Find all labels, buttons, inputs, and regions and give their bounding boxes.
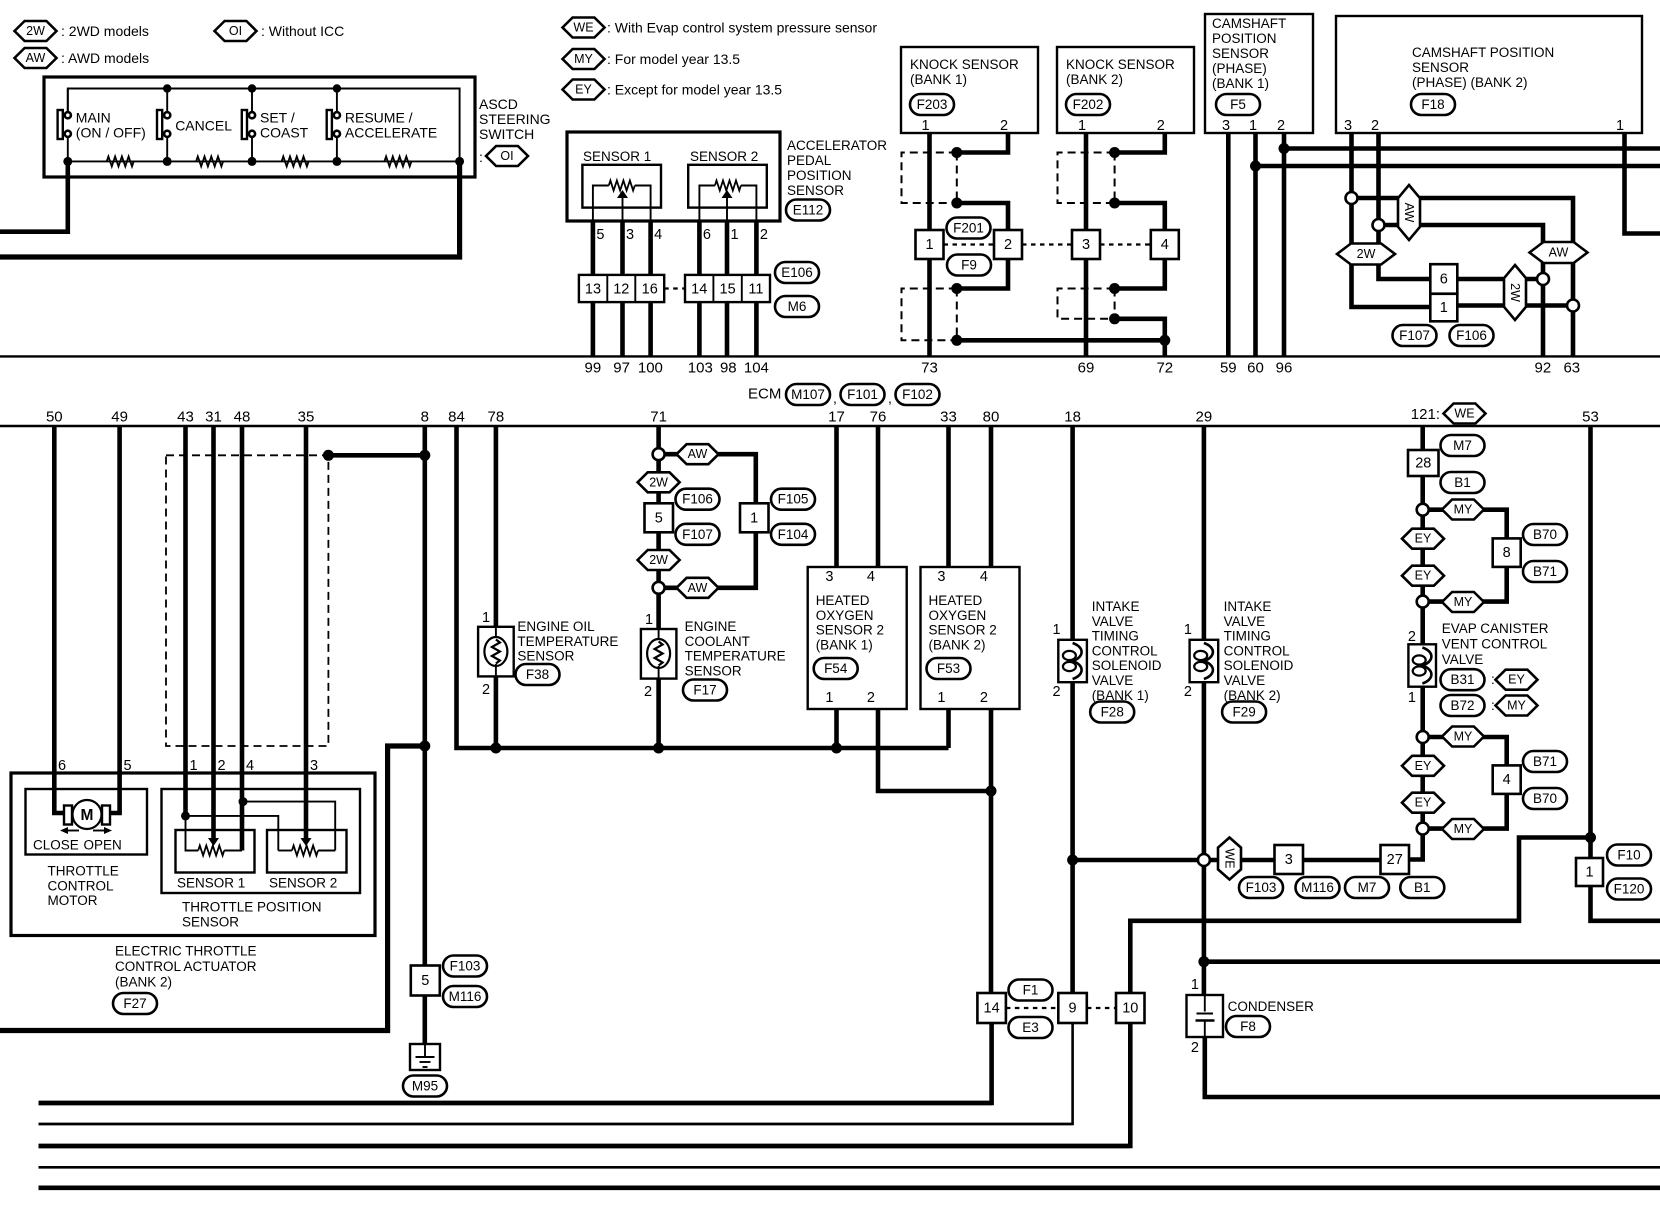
svg-text:17: 17 bbox=[828, 409, 845, 426]
wire to engine coolant temperature sensor bbox=[656, 588, 661, 629]
APP sensor pin 5 wire to connector bbox=[591, 221, 596, 275]
svg-text:3: 3 bbox=[310, 758, 318, 774]
connector label M7 (WE bus) bbox=[1345, 877, 1389, 898]
bottom bus line 1 bbox=[39, 1101, 992, 1106]
ASCD internal bottom bus wire bbox=[68, 160, 460, 162]
wire ECM pin 84 to sensor ground bus bbox=[457, 426, 949, 748]
condition hexagon MY (upper branch start) bbox=[1442, 500, 1484, 520]
condition hexagon AW tall on branch wires bbox=[1398, 185, 1420, 240]
APP sensor pin 2 wire to connector bbox=[754, 221, 759, 275]
dashed link between connectors bbox=[664, 287, 685, 289]
joint circle lower MY branch bbox=[1417, 731, 1429, 743]
svg-text:TIMING: TIMING bbox=[1224, 629, 1271, 644]
junction on bottom bus #3 bbox=[248, 157, 257, 166]
junction oil temp sensor on ground bus bbox=[490, 743, 501, 754]
svg-text:99: 99 bbox=[585, 360, 602, 377]
svg-text:M116: M116 bbox=[449, 989, 482, 1004]
shield junction 2 bbox=[951, 198, 962, 209]
wire HO2S bank1 pin1 to ground bus bbox=[834, 709, 839, 748]
junction pin 8 column at shield wire bbox=[419, 450, 430, 461]
svg-text:1: 1 bbox=[922, 118, 930, 134]
throttle control motor box bbox=[26, 789, 148, 855]
wire connector to ECM below pin 2 bbox=[754, 302, 759, 356]
TPS sensor 1 inner box bbox=[176, 830, 255, 873]
svg-text:53: 53 bbox=[1582, 409, 1599, 426]
camshaft position sensor (phase)(bank1) box F5 bbox=[1205, 14, 1313, 133]
wire connector 10 to bottom bus 3 bbox=[39, 1023, 1131, 1146]
svg-text:1: 1 bbox=[1249, 118, 1257, 134]
svg-text:6: 6 bbox=[703, 227, 711, 243]
condition hexagon 2W tall on connector wires bbox=[1504, 265, 1526, 320]
F18 pin 3 wire upper segment bbox=[1349, 133, 1354, 198]
svg-text:B31: B31 bbox=[1450, 672, 1474, 687]
svg-text:CONTROL: CONTROL bbox=[1092, 643, 1158, 658]
knock sensor (BANK 1) box F203 bbox=[901, 47, 1038, 133]
resistor R2 in ASCD switch bbox=[196, 156, 223, 166]
knock sensor (BANK 2) box F202 bbox=[1057, 47, 1194, 133]
svg-text:B70: B70 bbox=[1533, 791, 1557, 806]
svg-text:3: 3 bbox=[1344, 118, 1352, 134]
wire TPS shield to pin 8 column bbox=[328, 453, 424, 458]
svg-text:28: 28 bbox=[1415, 456, 1431, 472]
svg-text:WE: WE bbox=[1223, 848, 1237, 868]
svg-text:B1: B1 bbox=[1454, 475, 1471, 490]
svg-text:HEATED: HEATED bbox=[816, 593, 870, 608]
wire below connector bbox=[957, 259, 1008, 289]
heated oxygen sensor 2 (BANK 2) box F53 bbox=[921, 567, 1020, 709]
motor close arrow bbox=[60, 827, 68, 834]
svg-text:10: 10 bbox=[1122, 1001, 1138, 1017]
svg-text:73: 73 bbox=[921, 360, 938, 377]
shield dashed drain upper bbox=[956, 153, 958, 204]
junction HO2S pin2 wires bbox=[986, 786, 997, 797]
svg-text:59: 59 bbox=[1220, 360, 1237, 377]
svg-text:F17: F17 bbox=[693, 683, 716, 698]
svg-text:F106: F106 bbox=[682, 492, 713, 507]
condition hexagon AW upper (pin71) bbox=[677, 444, 719, 464]
svg-text:ENGINE: ENGINE bbox=[685, 619, 737, 634]
engine oil temperature sensor F38 bbox=[478, 627, 514, 677]
MY branch wire lower through connector 4 bbox=[1423, 737, 1507, 765]
svg-text:2: 2 bbox=[644, 684, 652, 700]
connector label F38 bbox=[516, 664, 560, 685]
connector label F53 bbox=[927, 658, 971, 679]
wire connector to ECM below pin 3 bbox=[620, 302, 625, 356]
svg-text:2: 2 bbox=[760, 227, 768, 243]
wire knock bank2 shield to pin 72 column bbox=[1115, 319, 1165, 341]
svg-text:MY: MY bbox=[1454, 503, 1473, 517]
shield dashed drain upper bbox=[1114, 153, 1116, 204]
joint connector circles overlay bbox=[65, 112, 1579, 866]
wire ECM to HO2S (BANK 1) pin 3 bbox=[834, 426, 839, 567]
svg-text:9: 9 bbox=[1069, 1001, 1077, 1017]
ground branch wire of throttle actuator bbox=[0, 746, 425, 1031]
svg-text:8: 8 bbox=[1503, 545, 1511, 561]
svg-text:WE: WE bbox=[573, 21, 593, 35]
svg-text:OI: OI bbox=[500, 149, 513, 163]
wire ECM to HO2S (BANK 2) pin 3 bbox=[946, 426, 951, 567]
svg-text:B71: B71 bbox=[1533, 564, 1557, 579]
junction pin 8 column to actuator ground branch bbox=[419, 741, 430, 752]
svg-text:SENSOR 2: SENSOR 2 bbox=[929, 623, 997, 638]
svg-text:AW: AW bbox=[1549, 246, 1569, 260]
svg-text:1: 1 bbox=[1616, 118, 1624, 134]
wire connector 27 to EVAP chain bbox=[1409, 829, 1423, 860]
condition hexagon 2W upper (pin71) bbox=[638, 472, 680, 492]
joint circle upper MY branch bbox=[1417, 504, 1429, 516]
wire ECM to HO2S (BANK 1) pin 4 bbox=[876, 426, 881, 567]
joint connector circle on pin3 bbox=[1346, 192, 1358, 204]
connector box 3 on WE bus bbox=[1275, 845, 1304, 874]
junction on top bus above CANCEL bbox=[163, 84, 171, 92]
junction TPS pin1 branch bbox=[181, 811, 190, 820]
wire connector to ECM below pin 5 bbox=[591, 302, 596, 356]
svg-text:SENSOR 1: SENSOR 1 bbox=[177, 876, 245, 891]
interconnect box 1 (pin71 AW branch) bbox=[740, 503, 769, 532]
svg-text:: For model year 13.5: : For model year 13.5 bbox=[607, 51, 740, 67]
svg-text:: Without ICC: : Without ICC bbox=[261, 23, 344, 39]
svg-text:5: 5 bbox=[421, 973, 429, 989]
svg-text:12: 12 bbox=[613, 282, 629, 298]
svg-text:VENT CONTROL: VENT CONTROL bbox=[1442, 637, 1548, 652]
dotted link 2-3 bbox=[1022, 243, 1072, 245]
svg-text:HEATED: HEATED bbox=[929, 593, 983, 608]
dotted link 3-4 bbox=[1100, 243, 1151, 245]
svg-text:F105: F105 bbox=[778, 492, 809, 507]
svg-text:CAMSHAFT POSITION: CAMSHAFT POSITION bbox=[1412, 45, 1554, 60]
svg-text:1: 1 bbox=[482, 610, 490, 626]
TPS shield dashed box bbox=[166, 455, 328, 746]
svg-text:F107: F107 bbox=[1399, 328, 1430, 343]
svg-text:(BANK 1): (BANK 1) bbox=[816, 637, 873, 652]
knock bank2 shield junction 4 bbox=[1109, 313, 1120, 324]
switch RESUME / ACCELERATE actuator bar bbox=[327, 110, 332, 139]
legend symbol 2W = 2WD models bbox=[15, 21, 57, 41]
svg-text:SOLENOID: SOLENOID bbox=[1092, 658, 1162, 673]
junction pin72 column bbox=[1159, 335, 1170, 346]
svg-text:2: 2 bbox=[482, 682, 490, 698]
svg-text:31: 31 bbox=[205, 409, 222, 426]
wire to ECM pin 63 bbox=[1571, 306, 1576, 357]
ASCD steering switch enclosure box bbox=[44, 77, 475, 177]
connector label E106 bbox=[775, 262, 819, 283]
knock bank1 shield junction 4 bbox=[951, 335, 962, 346]
svg-text:CANCEL: CANCEL bbox=[175, 118, 232, 134]
svg-text:121:: 121: bbox=[1411, 406, 1440, 423]
svg-text:1: 1 bbox=[1078, 118, 1086, 134]
connector label F201 bbox=[947, 218, 991, 239]
svg-text:EY: EY bbox=[1415, 796, 1432, 810]
connector label F29 bbox=[1222, 702, 1266, 723]
wire ECM pin 50 to throttle motor pin 6 bbox=[54, 426, 64, 813]
connector label F9 bbox=[947, 255, 991, 276]
condition hexagon EY lower1 bbox=[1402, 756, 1444, 776]
svg-text:1: 1 bbox=[825, 690, 833, 706]
wire ECM to intake valve solenoid BANK 2 bbox=[1202, 426, 1207, 640]
switch SET / COAST contacts bbox=[249, 112, 255, 118]
wire to EVAP valve coil bbox=[1420, 602, 1425, 645]
shield junction top bbox=[951, 147, 962, 158]
svg-text:MOTOR: MOTOR bbox=[48, 893, 98, 908]
motor terminal left bbox=[64, 806, 72, 825]
svg-text:2: 2 bbox=[1157, 118, 1165, 134]
svg-text:VALVE: VALVE bbox=[1092, 614, 1134, 629]
knock sensor F203 pin 2 wire bbox=[957, 133, 1008, 153]
junction HO2S bank1 on ground bus bbox=[831, 743, 842, 754]
wire ECM pin 121 to connector 28 bbox=[1420, 426, 1425, 450]
svg-text:: 2WD models: : 2WD models bbox=[61, 23, 149, 39]
connector box 5 on ground column bbox=[411, 966, 440, 996]
svg-text:F103: F103 bbox=[450, 959, 481, 974]
switch MAIN (ON / OFF) contacts bbox=[65, 112, 71, 118]
connector E106/M6 row cells 13 12 16 bbox=[579, 275, 664, 302]
APP sensor pin 3 wire to connector bbox=[620, 221, 625, 275]
wire ECM pin 49 to throttle motor pin 5 bbox=[110, 426, 120, 813]
svg-text:F201: F201 bbox=[953, 221, 984, 236]
svg-text:THROTTLE: THROTTLE bbox=[48, 864, 119, 879]
wire ASCD right end to left edge bbox=[0, 161, 460, 257]
shield junction top bbox=[1109, 147, 1120, 158]
wire EVAP valve to joint circle bbox=[1420, 687, 1425, 737]
connector label B70 (upper) bbox=[1523, 524, 1567, 545]
svg-text:48: 48 bbox=[234, 409, 251, 426]
wire intake solenoid bank2 pin2 down to condenser bbox=[1202, 682, 1207, 995]
wire ECM pin 35 to TPS pin 3 bbox=[304, 426, 309, 838]
svg-text:3: 3 bbox=[626, 227, 634, 243]
APP sensor pin 6 wire to connector bbox=[697, 221, 702, 275]
wire ECM pin 78 to engine oil temperature sensor bbox=[494, 426, 499, 627]
condition hexagon MY (lower branch start) bbox=[1442, 727, 1484, 747]
legend symbol OI = Without ICC bbox=[215, 21, 257, 41]
F18 pin 2 wire lower segment to connector 6 bbox=[1379, 225, 1431, 279]
MY branch wire upper through connector 8 bbox=[1423, 510, 1507, 539]
AW branch wire lower bbox=[659, 532, 756, 588]
svg-text:2: 2 bbox=[1408, 629, 1416, 645]
svg-text:STEERING: STEERING bbox=[479, 111, 551, 127]
svg-text:F107: F107 bbox=[682, 527, 713, 542]
svg-text:43: 43 bbox=[177, 409, 194, 426]
wire connector 9 to bottom bus 2 bbox=[39, 1023, 1073, 1124]
svg-text:35: 35 bbox=[298, 409, 315, 426]
svg-text:F8: F8 bbox=[1240, 1019, 1256, 1034]
svg-text:EY: EY bbox=[575, 83, 592, 97]
joint connector circle on pin 71 lower bbox=[653, 582, 665, 594]
resistor R3 in ASCD switch bbox=[282, 156, 309, 166]
sensor 1 inner box bbox=[582, 165, 661, 208]
shield junction 3 bbox=[951, 283, 962, 294]
svg-text:98: 98 bbox=[720, 360, 737, 377]
wire connector 10 up to F10 branch bbox=[1130, 838, 1591, 994]
connector label F106 (pin71) bbox=[676, 489, 720, 510]
svg-text:2: 2 bbox=[218, 758, 226, 774]
svg-text:M: M bbox=[81, 807, 94, 824]
svg-text:78: 78 bbox=[488, 409, 505, 426]
connector label F203 bbox=[910, 94, 954, 115]
svg-text::: : bbox=[479, 149, 483, 165]
intake valve timing control solenoid valve BANK 2 F29 bbox=[1190, 640, 1219, 682]
svg-text:EY: EY bbox=[1415, 759, 1432, 773]
connector label F105 bbox=[771, 489, 815, 510]
joint connector circle on pin 71 upper bbox=[653, 448, 665, 460]
svg-text:OI: OI bbox=[229, 24, 242, 38]
condition hexagon 2W lower (pin71) bbox=[638, 550, 680, 570]
condition hexagon 2W on pin3/pin2 wires bbox=[1337, 244, 1395, 265]
svg-text:POSITION: POSITION bbox=[1212, 31, 1277, 46]
svg-text:TIMING: TIMING bbox=[1092, 629, 1139, 644]
shield junction 3 bbox=[1109, 283, 1120, 294]
svg-text:EY: EY bbox=[1415, 532, 1432, 546]
svg-text:SENSOR: SENSOR bbox=[1412, 60, 1469, 75]
svg-text:MY: MY bbox=[1507, 699, 1526, 713]
svg-text:2W: 2W bbox=[1357, 247, 1376, 261]
wire intake solenoid bank1 pin2 down to connector 9 bbox=[1070, 682, 1075, 993]
connector label F101 bbox=[841, 384, 885, 405]
svg-text:CONTROL: CONTROL bbox=[48, 878, 114, 893]
svg-text:RESUME /: RESUME / bbox=[345, 110, 413, 126]
switch SET / COAST actuator bar bbox=[242, 110, 247, 139]
switch RESUME / ACCELERATE contacts bbox=[334, 112, 340, 118]
svg-text:SENSOR: SENSOR bbox=[182, 915, 239, 930]
bottom bus line 2 bbox=[39, 1123, 1073, 1126]
svg-text:AW: AW bbox=[1402, 203, 1416, 223]
svg-text:SWITCH: SWITCH bbox=[479, 126, 534, 142]
svg-text:18: 18 bbox=[1064, 409, 1081, 426]
svg-text:2W: 2W bbox=[649, 553, 668, 567]
svg-text:EY: EY bbox=[1415, 569, 1432, 583]
wire ECM pin 31 to TPS pin 2 bbox=[211, 426, 216, 838]
condition hexagon AW lower (pin71) bbox=[677, 578, 719, 598]
svg-text:1: 1 bbox=[731, 227, 739, 243]
svg-text:60: 60 bbox=[1247, 360, 1264, 377]
connector label F54 bbox=[814, 658, 858, 679]
svg-text:MY: MY bbox=[1454, 822, 1473, 836]
svg-text:ENGINE OIL: ENGINE OIL bbox=[517, 619, 595, 634]
svg-text:F120: F120 bbox=[1614, 882, 1645, 897]
dotted link 14-9 bbox=[1006, 1007, 1058, 1009]
connector label F103 bbox=[443, 956, 487, 977]
condition hexagon AW on joint columns bbox=[1530, 242, 1588, 263]
svg-text:11: 11 bbox=[748, 282, 763, 298]
svg-text:2: 2 bbox=[1000, 118, 1008, 134]
ASCD internal top bus wire bbox=[68, 89, 460, 162]
connector box 28 bbox=[1408, 450, 1439, 476]
TPS sensor 2 inner box bbox=[267, 830, 347, 873]
svg-text:1: 1 bbox=[1408, 690, 1416, 706]
connector label F102 bbox=[896, 384, 940, 405]
APP sensor pin 1 wire to connector bbox=[725, 221, 730, 275]
F18 pin 2 wire upper segment bbox=[1376, 133, 1381, 225]
svg-text:: Except for model year 13.5: : Except for model year 13.5 bbox=[607, 82, 782, 98]
bottom bus line 5 bbox=[39, 1186, 1660, 1191]
connector box 14 bbox=[977, 993, 1006, 1023]
svg-text:33: 33 bbox=[940, 409, 957, 426]
wire ECM pin 8 ground column bbox=[422, 426, 427, 1044]
svg-text:ACCELERATOR: ACCELERATOR bbox=[787, 138, 887, 153]
svg-text:SENSOR: SENSOR bbox=[685, 663, 742, 678]
svg-text:CONTROL: CONTROL bbox=[1224, 643, 1290, 658]
svg-text:5: 5 bbox=[655, 510, 663, 526]
svg-text:MY: MY bbox=[1454, 730, 1473, 744]
svg-text:POSITION: POSITION bbox=[787, 168, 852, 183]
F18 pin2 branch wire to pin 92 column bbox=[1379, 225, 1544, 279]
wire ECM pin 48 to TPS pin 4 bbox=[240, 426, 245, 851]
connector label F17 bbox=[683, 680, 727, 701]
svg-text:5: 5 bbox=[596, 227, 604, 243]
knock bank2 shield dashed drain lower bbox=[1114, 289, 1116, 319]
connector box 10 bbox=[1116, 993, 1145, 1023]
svg-text:SENSOR 1: SENSOR 1 bbox=[583, 149, 651, 164]
svg-text:B72: B72 bbox=[1450, 698, 1474, 713]
connector label F18 bbox=[1411, 94, 1455, 115]
svg-text:1: 1 bbox=[190, 758, 198, 774]
svg-text:INTAKE: INTAKE bbox=[1092, 599, 1140, 614]
svg-text:4: 4 bbox=[1503, 772, 1511, 788]
svg-text:: AWD models: : AWD models bbox=[61, 50, 149, 66]
connector label B1 (121) bbox=[1441, 472, 1485, 493]
MY branch wire lower end bbox=[1423, 794, 1507, 829]
svg-text:EVAP CANISTER: EVAP CANISTER bbox=[1442, 621, 1549, 636]
ground symbol M95 bbox=[410, 1044, 440, 1070]
svg-text:1: 1 bbox=[1053, 622, 1061, 638]
connector box 27 on WE bus bbox=[1381, 845, 1410, 874]
svg-text:E106: E106 bbox=[781, 265, 813, 280]
condition hexagon EY upper1 bbox=[1402, 529, 1444, 549]
svg-text:4: 4 bbox=[980, 569, 988, 585]
svg-text:M107: M107 bbox=[791, 387, 825, 402]
interconnect box 5 (pin71) bbox=[645, 503, 674, 532]
svg-text:AW: AW bbox=[26, 51, 46, 65]
wire ASCD MAIN switch to left edge bbox=[0, 161, 68, 231]
svg-text:B1: B1 bbox=[1414, 880, 1431, 895]
svg-text:92: 92 bbox=[1535, 360, 1552, 377]
connector box 4 bbox=[1493, 765, 1521, 794]
junction on top bus above SET/COAST bbox=[248, 84, 256, 92]
svg-text:103: 103 bbox=[688, 360, 713, 377]
AW branch wire upper bbox=[659, 454, 756, 503]
svg-text:B70: B70 bbox=[1533, 527, 1557, 542]
interconnect box 1 bbox=[1430, 294, 1457, 322]
svg-text:F29: F29 bbox=[1232, 705, 1255, 720]
svg-text:,: , bbox=[833, 390, 837, 406]
condition hexagon EY lower2 bbox=[1402, 793, 1444, 813]
svg-text:WE: WE bbox=[1454, 407, 1474, 421]
wire ECM pin 53 down to F10 connector bbox=[1588, 426, 1593, 858]
shield bus wire to ECM pin 72 column bbox=[957, 338, 1165, 343]
ground connector label M95 bbox=[403, 1076, 447, 1097]
connector row cells 14 15 11 bbox=[685, 275, 770, 302]
connector label F107 (cam) bbox=[1393, 325, 1437, 346]
wire connector to ECM below pin 4 bbox=[648, 302, 653, 356]
svg-text:13: 13 bbox=[585, 282, 601, 298]
svg-text:ASCD: ASCD bbox=[479, 96, 518, 112]
svg-text:OPEN: OPEN bbox=[84, 838, 122, 853]
condition hexagon MY (upper branch end) bbox=[1442, 592, 1484, 612]
svg-text:F102: F102 bbox=[902, 387, 933, 402]
F18 pin3 branch wire to pin 63 column bbox=[1352, 198, 1574, 306]
F5 pin 2 wire to ECM pin 96 bbox=[1282, 133, 1287, 356]
svg-text:1: 1 bbox=[1440, 300, 1448, 316]
connector label B72 bbox=[1441, 695, 1485, 716]
svg-text:1: 1 bbox=[750, 510, 758, 526]
svg-text:,: , bbox=[888, 390, 892, 406]
svg-text:F5: F5 bbox=[1230, 97, 1246, 112]
connector box 1 (F10/F120) bbox=[1576, 858, 1603, 886]
svg-text:MY: MY bbox=[1454, 595, 1473, 609]
switch CANCEL contact stems bbox=[166, 89, 168, 113]
junction pin53 with branch from connector 10 bbox=[1585, 832, 1596, 843]
motor symbol M bbox=[73, 800, 102, 829]
potentiometer sensor 2 of APP sensor bbox=[699, 186, 715, 222]
